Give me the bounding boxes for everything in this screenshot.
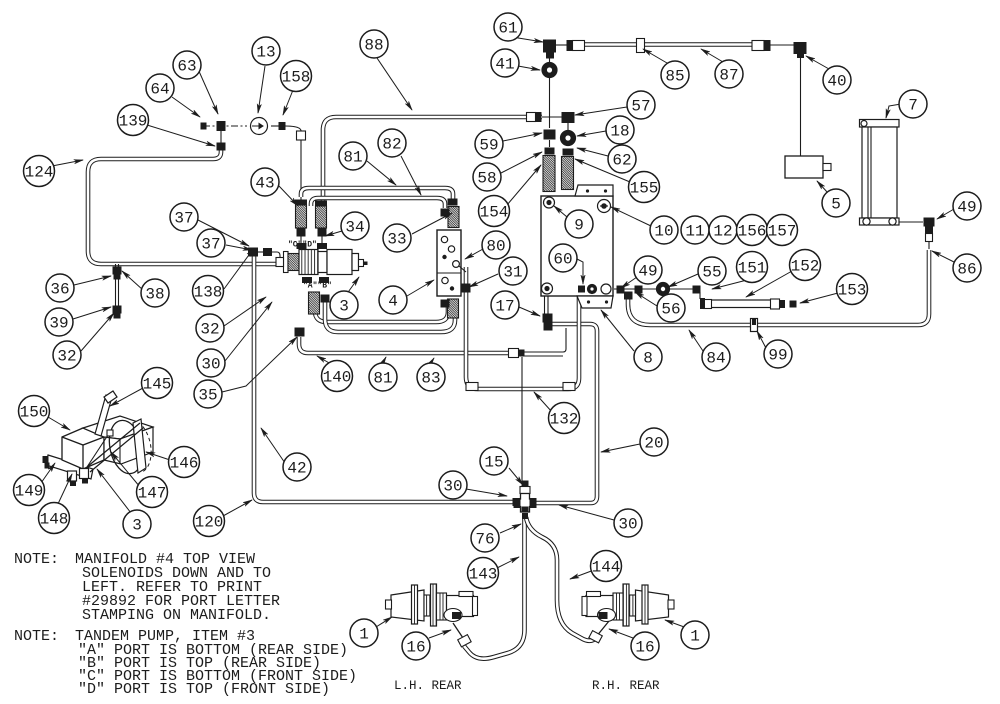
svg-text:9: 9 xyxy=(574,217,584,235)
svg-text:11: 11 xyxy=(685,223,704,241)
svg-text:"D" PORT IS TOP (FRONT SIDE): "D" PORT IS TOP (FRONT SIDE) xyxy=(78,681,330,698)
svg-text:153: 153 xyxy=(838,282,867,300)
svg-text:"A""B": "A""B" xyxy=(303,282,332,291)
svg-text:12: 12 xyxy=(713,223,732,241)
svg-text:124: 124 xyxy=(25,164,54,182)
svg-text:56: 56 xyxy=(661,301,680,319)
svg-text:31: 31 xyxy=(503,264,522,282)
svg-text:132: 132 xyxy=(550,411,579,429)
svg-text:143: 143 xyxy=(469,566,498,584)
svg-text:18: 18 xyxy=(610,123,629,141)
svg-text:20: 20 xyxy=(644,435,663,453)
svg-text:NOTE:: NOTE: xyxy=(14,628,59,645)
svg-text:33: 33 xyxy=(387,231,406,249)
svg-text:37: 37 xyxy=(174,210,193,228)
svg-text:10: 10 xyxy=(654,223,673,241)
svg-text:4: 4 xyxy=(388,293,398,311)
svg-text:R.H. REAR: R.H. REAR xyxy=(592,679,660,693)
svg-text:61: 61 xyxy=(498,20,517,38)
svg-text:1: 1 xyxy=(359,626,369,644)
svg-text:34: 34 xyxy=(345,219,364,237)
svg-text:3: 3 xyxy=(339,298,349,316)
svg-text:150: 150 xyxy=(20,404,49,422)
svg-text:82: 82 xyxy=(382,136,401,154)
svg-text:16: 16 xyxy=(406,639,425,657)
svg-text:39: 39 xyxy=(49,315,68,333)
svg-text:30: 30 xyxy=(618,516,637,534)
svg-text:158: 158 xyxy=(282,69,311,87)
svg-text:149: 149 xyxy=(15,483,44,501)
svg-text:99: 99 xyxy=(768,347,787,365)
svg-text:87: 87 xyxy=(719,67,738,85)
svg-text:37: 37 xyxy=(201,236,220,254)
svg-text:81: 81 xyxy=(343,149,362,167)
svg-text:62: 62 xyxy=(612,152,631,170)
svg-text:76: 76 xyxy=(475,531,494,549)
svg-text:86: 86 xyxy=(957,261,976,279)
svg-text:154: 154 xyxy=(480,204,509,222)
svg-text:80: 80 xyxy=(486,238,505,256)
svg-text:120: 120 xyxy=(195,514,224,532)
svg-text:30: 30 xyxy=(443,478,462,496)
svg-text:64: 64 xyxy=(150,81,169,99)
svg-text:84: 84 xyxy=(706,350,725,368)
svg-text:30: 30 xyxy=(201,356,220,374)
svg-text:STAMPING ON MANIFOLD.: STAMPING ON MANIFOLD. xyxy=(82,607,271,624)
svg-text:L.H. REAR: L.H. REAR xyxy=(394,679,462,693)
svg-text:36: 36 xyxy=(50,281,69,299)
svg-text:32: 32 xyxy=(57,348,76,366)
svg-text:88: 88 xyxy=(364,37,383,55)
svg-text:156: 156 xyxy=(738,223,767,241)
svg-text:83: 83 xyxy=(421,370,440,388)
svg-text:55: 55 xyxy=(702,264,721,282)
svg-text:138: 138 xyxy=(194,284,223,302)
svg-text:32: 32 xyxy=(200,321,219,339)
svg-text:157: 157 xyxy=(768,223,797,241)
svg-text:139: 139 xyxy=(119,113,148,131)
svg-text:155: 155 xyxy=(630,180,659,198)
svg-text:144: 144 xyxy=(592,559,621,577)
svg-text:5: 5 xyxy=(831,196,841,214)
svg-text:35: 35 xyxy=(198,387,217,405)
svg-text:60: 60 xyxy=(553,251,572,269)
svg-text:38: 38 xyxy=(145,286,164,304)
svg-text:NOTE:: NOTE: xyxy=(14,551,59,568)
svg-text:145: 145 xyxy=(143,376,172,394)
svg-text:140: 140 xyxy=(323,369,352,387)
svg-text:43: 43 xyxy=(255,175,274,193)
svg-text:152: 152 xyxy=(791,258,820,276)
svg-text:59: 59 xyxy=(479,137,498,155)
svg-text:3: 3 xyxy=(132,517,142,535)
svg-text:17: 17 xyxy=(495,298,514,316)
svg-text:81: 81 xyxy=(373,370,392,388)
svg-text:40: 40 xyxy=(827,73,846,91)
svg-text:13: 13 xyxy=(256,44,275,62)
svg-text:41: 41 xyxy=(495,56,514,74)
svg-text:15: 15 xyxy=(484,454,503,472)
svg-text:148: 148 xyxy=(40,511,69,529)
svg-text:8: 8 xyxy=(643,350,653,368)
svg-text:"C""D": "C""D" xyxy=(288,241,317,250)
svg-text:42: 42 xyxy=(287,460,306,478)
svg-text:151: 151 xyxy=(738,260,767,278)
svg-text:57: 57 xyxy=(631,98,650,116)
svg-text:146: 146 xyxy=(170,455,199,473)
svg-text:16: 16 xyxy=(635,639,654,657)
svg-text:58: 58 xyxy=(477,170,496,188)
svg-text:63: 63 xyxy=(177,58,196,76)
svg-text:7: 7 xyxy=(908,97,918,115)
svg-text:1: 1 xyxy=(690,628,700,646)
svg-text:49: 49 xyxy=(957,199,976,217)
svg-text:147: 147 xyxy=(138,485,167,503)
svg-text:49: 49 xyxy=(638,263,657,281)
svg-text:85: 85 xyxy=(665,68,684,86)
